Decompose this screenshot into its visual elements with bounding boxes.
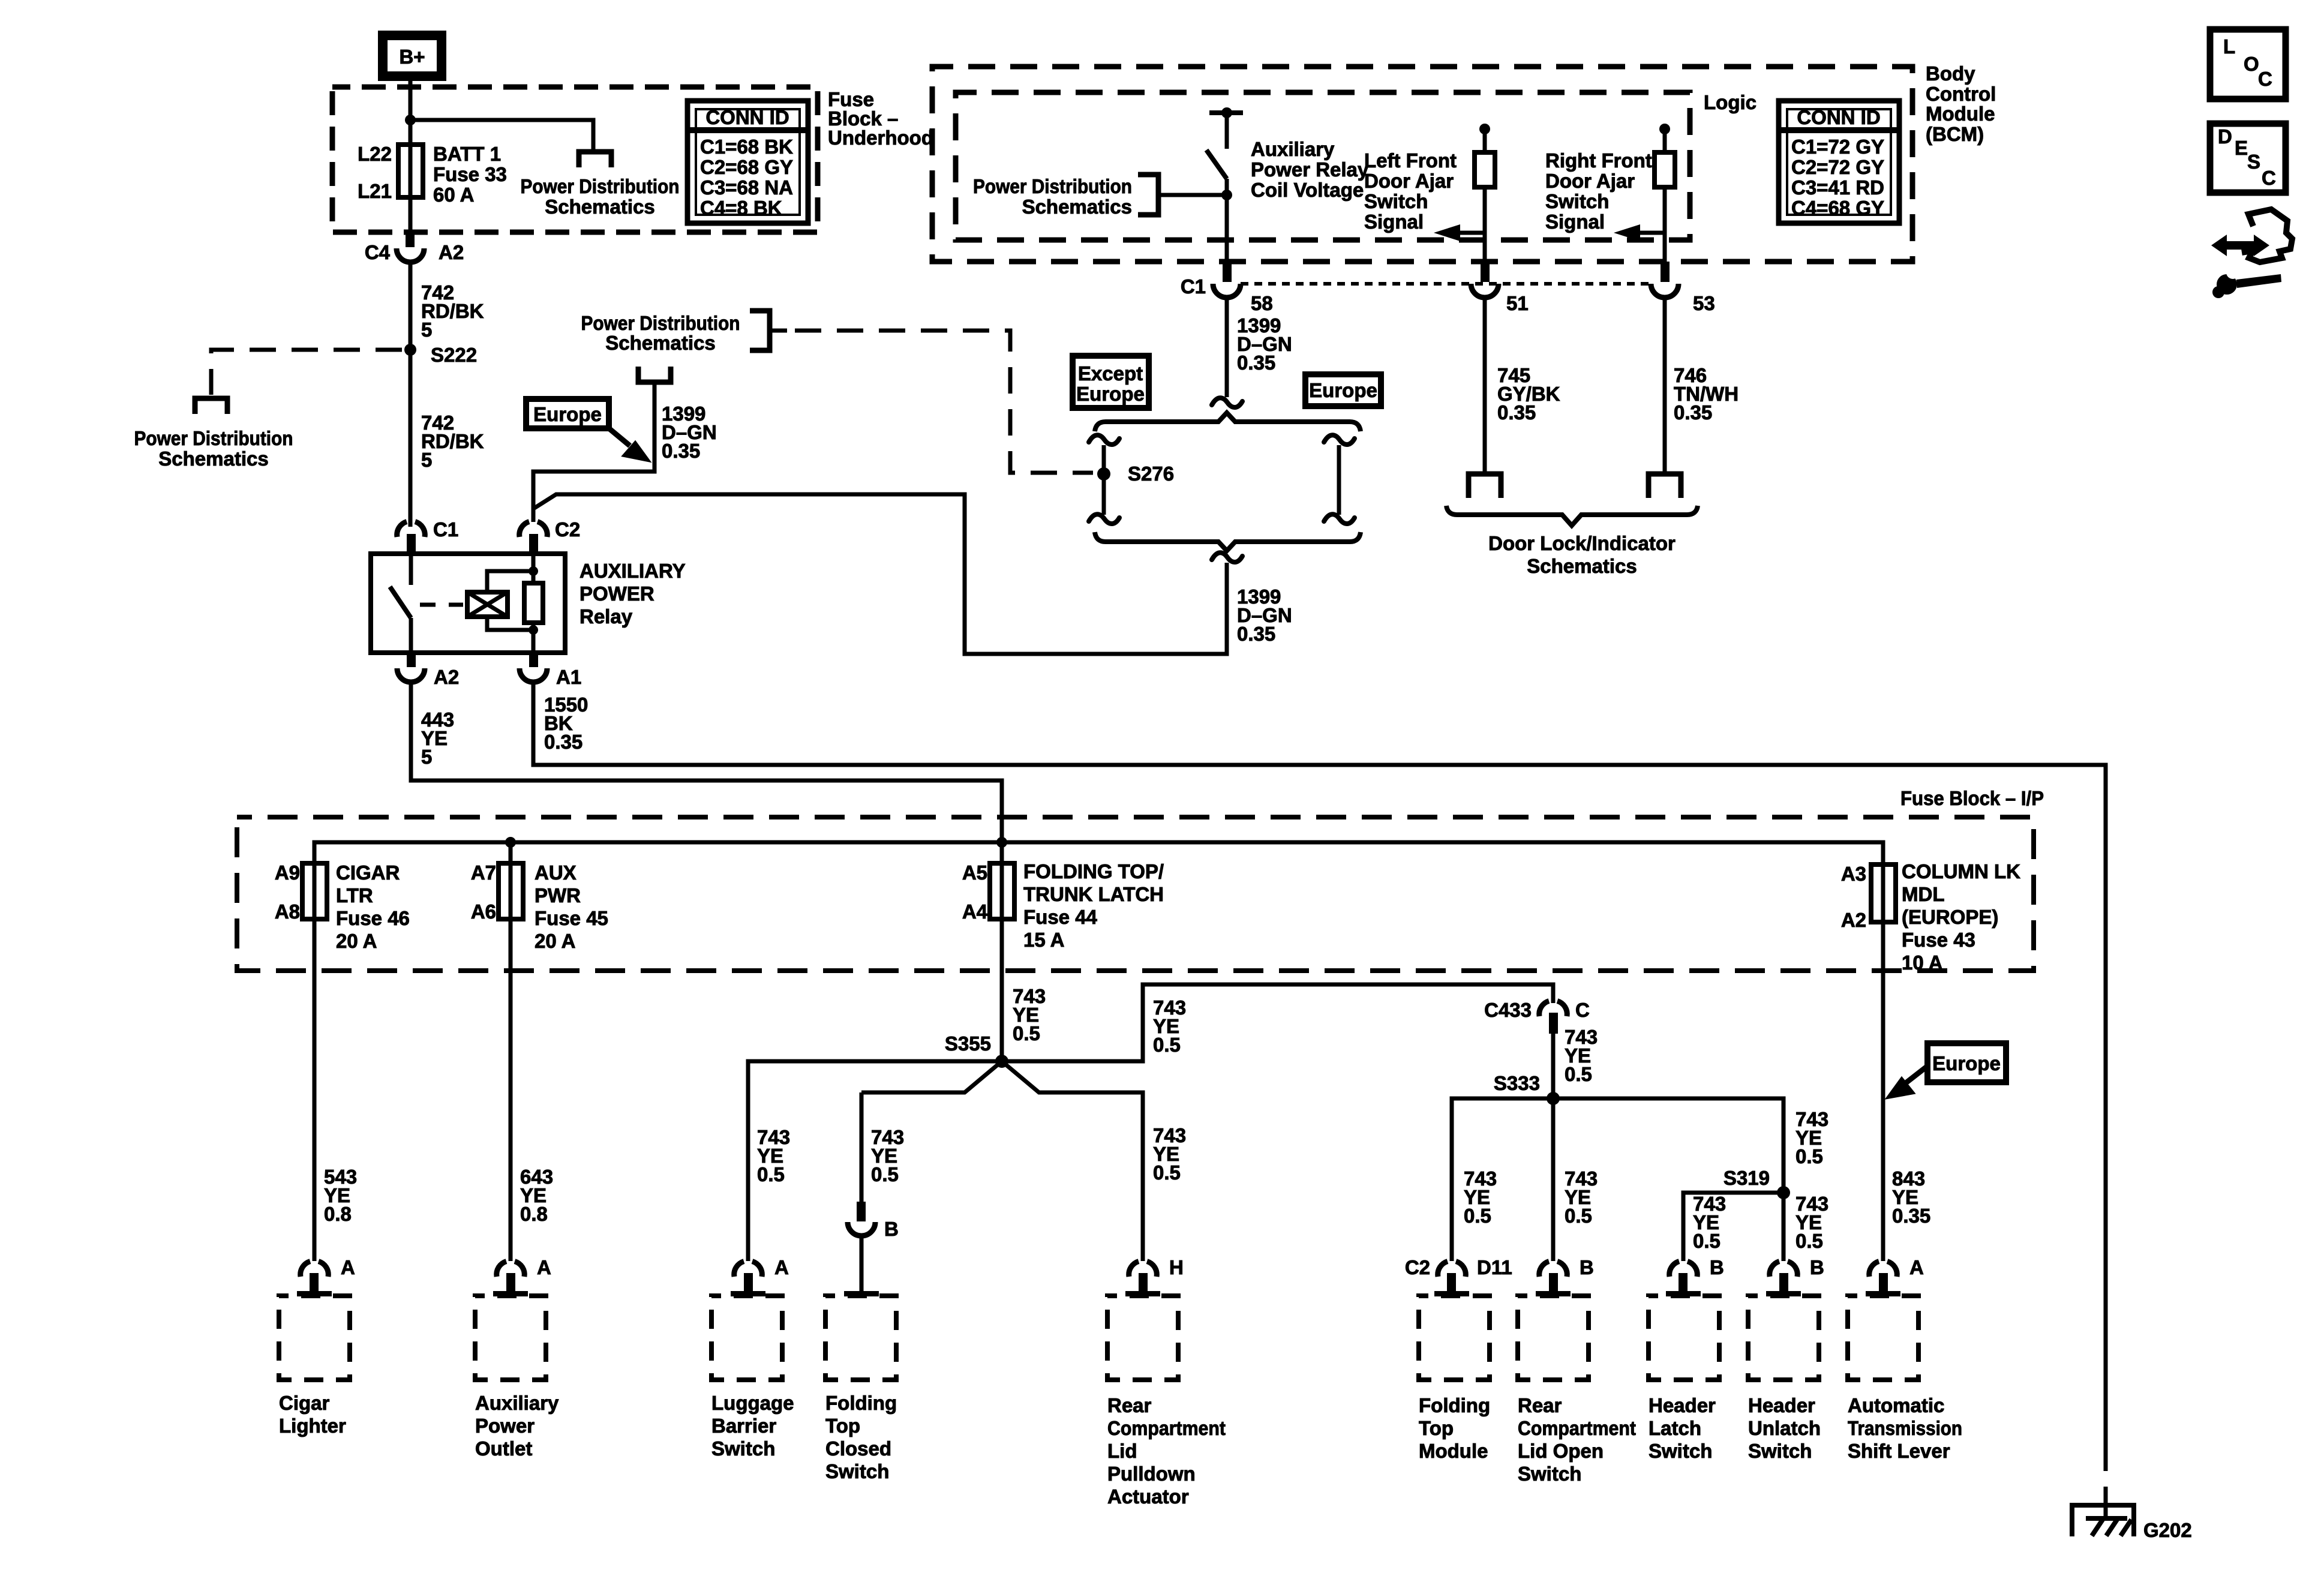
node: bus at aux pwr <box>505 837 516 848</box>
svg-text:Switch: Switch <box>711 1437 775 1460</box>
node relay bottom <box>529 625 538 635</box>
svg-text:Switch: Switch <box>1545 190 1609 212</box>
label: circuit 643 YE 0.8 <box>520 1166 553 1225</box>
svg-text:Top: Top <box>1419 1417 1454 1439</box>
wire 1399 D-GN from power distribution <box>533 385 654 522</box>
brace: door lock/indicator schematics <box>1446 506 1698 526</box>
label: circuit 742 RD/BK 5 (upper) <box>421 281 484 341</box>
svg-text:Switch: Switch <box>1518 1463 1581 1485</box>
svg-text:A2: A2 <box>434 666 459 688</box>
fuse BATT 1 Fuse 33 60 A <box>409 145 413 232</box>
label: circuit 743 YE 0.5 (header latch) <box>1693 1193 1726 1252</box>
svg-text:C1: C1 <box>433 518 458 541</box>
svg-text:A2: A2 <box>1841 909 1866 931</box>
node relay top <box>529 566 538 576</box>
Europe flag (merge) <box>1305 374 1381 406</box>
svg-text:Switch: Switch <box>1649 1440 1712 1462</box>
wire S319 to header latch switch <box>1683 1193 1783 1261</box>
svg-text:Header: Header <box>1748 1394 1815 1416</box>
label: circuit 1399 D-GN 0.35 (to relay) <box>1237 586 1292 645</box>
svg-text:C1: C1 <box>1181 275 1206 298</box>
svg-text:Power Distribution: Power Distribution <box>521 175 680 197</box>
label: circuit 843 YE 0.35 <box>1892 1167 1930 1227</box>
svg-text:Relay: Relay <box>580 605 633 628</box>
svg-text:10 A: 10 A <box>1902 951 1942 974</box>
svg-text:Auxiliary: Auxiliary <box>1251 138 1335 160</box>
svg-text:C3=68 NA: C3=68 NA <box>700 176 793 199</box>
svg-text:Cigar: Cigar <box>279 1392 330 1414</box>
terminal (door lock) left <box>1469 474 1501 498</box>
svg-text:60 A: 60 A <box>433 184 474 206</box>
label: circuit 743 YE 0.5 (ftm) <box>1464 1167 1497 1227</box>
label: Power Distribution Schematics (left) <box>134 427 293 470</box>
svg-text:C4=8 BK: C4=8 BK <box>700 197 782 219</box>
svg-text:S: S <box>2247 151 2260 173</box>
wire 843 YE <box>1881 922 1885 1261</box>
splice S222 <box>404 344 416 356</box>
wire S333 to folding top module <box>1452 1098 1553 1261</box>
label: Automatic Transmission Shift Lever <box>1848 1394 1962 1462</box>
label: circuit 743 YE 0.5 (to C433) <box>1153 996 1186 1056</box>
svg-text:S355: S355 <box>945 1032 991 1055</box>
relay coil loop wires <box>487 571 533 592</box>
Body Control Module dashed box <box>932 67 1912 262</box>
wire S355 to folding top closed switch <box>861 1061 1002 1092</box>
svg-text:0.5: 0.5 <box>1693 1230 1721 1252</box>
svg-text:Switch: Switch <box>825 1460 889 1482</box>
label: circuit 743 YE 0.5 (lid open) <box>1565 1167 1598 1227</box>
label: circuit 743 YE 0.5 (folding closed) <box>871 1126 904 1185</box>
svg-text:CIGAR: CIGAR <box>336 861 400 884</box>
svg-text:20 A: 20 A <box>535 930 575 952</box>
label: AUX PWR Fuse 45 20 A <box>535 861 608 952</box>
svg-text:LTR: LTR <box>336 884 373 906</box>
svg-text:Fuse 46: Fuse 46 <box>336 907 410 929</box>
connector pin 51 (BCM) <box>1471 262 1529 314</box>
Cigar Lighter box <box>279 1296 350 1380</box>
relay coil (valve symbol) <box>467 592 508 617</box>
break squiggle below bottom brace <box>1212 553 1242 562</box>
svg-text:0.8: 0.8 <box>520 1203 548 1225</box>
svg-text:0.5: 0.5 <box>1153 1161 1181 1184</box>
svg-text:C2: C2 <box>555 518 580 541</box>
svg-text:Folding: Folding <box>1419 1394 1490 1416</box>
svg-text:Lid Open: Lid Open <box>1518 1440 1604 1462</box>
label: Power Distribution Schematics (underhood) <box>521 175 680 218</box>
wire S355 to luggage barrier switch <box>748 1061 1002 1261</box>
fuse CIGAR LTR Fuse 46 <box>313 842 317 919</box>
svg-text:Signal: Signal <box>1545 211 1605 233</box>
svg-text:0.5: 0.5 <box>1153 1034 1181 1056</box>
BCM connector row dotted line <box>1241 282 1651 286</box>
svg-text:0.5: 0.5 <box>1795 1145 1823 1167</box>
svg-text:Rear: Rear <box>1518 1394 1562 1416</box>
svg-text:E: E <box>2235 137 2248 159</box>
svg-text:Switch: Switch <box>1364 190 1428 212</box>
svg-text:Door Ajar: Door Ajar <box>1364 170 1454 192</box>
wire S333 to S319 <box>1553 1098 1783 1193</box>
svg-text:Actuator: Actuator <box>1107 1485 1189 1508</box>
svg-text:(BCM): (BCM) <box>1926 123 1984 145</box>
wire to ground (break) <box>2104 1487 2108 1517</box>
svg-text:0.5: 0.5 <box>871 1163 899 1185</box>
svg-text:Schematics: Schematics <box>605 332 715 354</box>
label: circuit 743 YE 0.5 (actuator) <box>1153 1124 1186 1184</box>
Header Unlatch Switch box <box>1748 1296 1819 1380</box>
label: Body Control Module (BCM) <box>1926 62 1996 145</box>
svg-text:L21: L21 <box>358 180 392 202</box>
label: Header Unlatch Switch <box>1748 1394 1821 1462</box>
off-page staple (left power distribution) <box>195 398 227 414</box>
svg-text:Transmission: Transmission <box>1848 1417 1962 1439</box>
connector C2 (relay) <box>520 518 580 554</box>
svg-text:C: C <box>2258 68 2272 90</box>
svg-text:Module: Module <box>1926 103 1995 125</box>
label: Auxiliary Power Outlet <box>475 1392 559 1460</box>
svg-text:53: 53 <box>1693 292 1715 314</box>
svg-text:B: B <box>1810 1256 1824 1278</box>
B+ power symbol <box>378 31 446 81</box>
label: circuit 745 GY/BK 0.35 <box>1497 364 1560 424</box>
svg-text:Pulldown: Pulldown <box>1107 1463 1196 1485</box>
Luggage Barrier Switch box <box>711 1296 782 1380</box>
wire S319 to header unlatch switch <box>1782 1193 1786 1261</box>
wire S333 to rear compartment lid open switch <box>1551 1098 1556 1261</box>
connector H (pulldown actuator) <box>1125 1256 1184 1296</box>
svg-text:Latch: Latch <box>1649 1417 1701 1439</box>
svg-text:A: A <box>1909 1256 1924 1278</box>
label: FOLDING TOP/TRUNK LATCH Fuse 44 15 A <box>1023 860 1164 951</box>
svg-text:B+: B+ <box>399 46 425 68</box>
svg-text:A6: A6 <box>471 900 496 923</box>
connector B (folding top closed switch) <box>844 1202 899 1296</box>
svg-text:Fuse 43: Fuse 43 <box>1902 929 1975 951</box>
svg-text:G202: G202 <box>2143 1519 2192 1541</box>
svg-text:Left Front: Left Front <box>1364 149 1457 172</box>
svg-text:C433: C433 <box>1484 999 1532 1021</box>
svg-text:A9: A9 <box>275 861 300 884</box>
svg-text:AUXILIARY: AUXILIARY <box>580 560 686 582</box>
svg-text:Underhood: Underhood <box>828 127 933 149</box>
connector C4/A2 <box>365 232 464 263</box>
label: circuit 743 YE 0.5 (fuse drop) <box>1013 985 1046 1044</box>
dashed wire to splice S276 <box>795 331 1093 473</box>
svg-text:B: B <box>884 1218 899 1240</box>
svg-text:5: 5 <box>421 746 432 768</box>
Europe flag (near relay) <box>526 399 609 428</box>
svg-text:PWR: PWR <box>535 884 581 906</box>
svg-text:Switch: Switch <box>1748 1440 1812 1462</box>
svg-text:Shift Lever: Shift Lever <box>1848 1440 1950 1462</box>
relay AUXILIARY POWER Relay box <box>371 554 565 653</box>
Fuse Block - Underhood dashed box <box>332 87 818 232</box>
Except Europe flag <box>1073 356 1149 408</box>
svg-text:S319: S319 <box>1724 1167 1770 1189</box>
Fuse Block - I/P dashed box <box>237 817 2034 971</box>
label: circuit 443 YE 5 <box>421 709 454 768</box>
label: Folding Top Closed Switch <box>825 1392 897 1482</box>
relay switch <box>390 554 411 653</box>
left door ajar signal arrow <box>1434 224 1485 241</box>
svg-text:Fuse Block – I/P: Fuse Block – I/P <box>1900 787 2044 809</box>
svg-text:0.5: 0.5 <box>1565 1063 1592 1085</box>
svg-text:Fuse 44: Fuse 44 <box>1023 906 1098 928</box>
svg-text:0.5: 0.5 <box>1795 1230 1823 1252</box>
svg-text:58: 58 <box>1251 292 1273 314</box>
label: BATT 1 Fuse 33 60 A <box>433 143 507 206</box>
svg-text:O: O <box>2244 53 2259 75</box>
svg-text:0.35: 0.35 <box>1892 1205 1930 1227</box>
svg-text:A7: A7 <box>471 861 496 884</box>
svg-text:0.35: 0.35 <box>1497 401 1536 424</box>
LOC icon <box>2210 29 2286 99</box>
svg-text:A4: A4 <box>962 900 988 923</box>
node: B+ branch junction <box>405 115 416 125</box>
svg-text:A8: A8 <box>275 900 300 923</box>
repair icon (arrow, panel, wrench) <box>2211 209 2292 298</box>
label: circuit 742 RD/BK 5 (lower) <box>421 412 484 471</box>
svg-text:Compartment: Compartment <box>1518 1417 1636 1439</box>
svg-text:Europe: Europe <box>1309 379 1377 401</box>
svg-text:0.35: 0.35 <box>1237 352 1275 374</box>
Europe arrow (near relay) <box>609 428 650 461</box>
svg-text:Top: Top <box>825 1415 860 1437</box>
svg-text:POWER: POWER <box>580 583 654 605</box>
svg-text:S333: S333 <box>1494 1072 1540 1094</box>
wire 743 YE below fuse 44 <box>1000 919 1004 1061</box>
svg-text:C2=68 GY: C2=68 GY <box>700 156 793 178</box>
svg-text:C: C <box>1575 999 1590 1021</box>
svg-text:A: A <box>341 1256 355 1278</box>
wire 643 YE <box>509 919 513 1261</box>
svg-text:B: B <box>1580 1256 1594 1278</box>
svg-text:0.5: 0.5 <box>1013 1022 1040 1044</box>
long wire from C2 branch to S276 bottom leg <box>533 494 1227 654</box>
svg-text:Signal: Signal <box>1364 211 1424 233</box>
svg-text:Luggage: Luggage <box>711 1392 794 1414</box>
svg-text:0.5: 0.5 <box>1565 1205 1592 1227</box>
Folding Top Module box <box>1419 1296 1490 1380</box>
Europe flag (column lock) <box>1927 1043 2006 1082</box>
svg-text:0.35: 0.35 <box>1674 401 1712 424</box>
label: circuit 743 YE 0.5 (C433-S333) <box>1565 1026 1598 1085</box>
wire 742 RD/BK lower <box>409 350 413 527</box>
svg-text:(EUROPE): (EUROPE) <box>1902 906 1998 928</box>
break squiggle below 1399 <box>1212 398 1242 407</box>
svg-text:B: B <box>1710 1256 1724 1278</box>
svg-text:S222: S222 <box>431 344 477 366</box>
label: Rear Compartment Lid Pulldown Actuator <box>1107 1394 1226 1508</box>
svg-text:Rear: Rear <box>1107 1394 1152 1416</box>
svg-text:0.35: 0.35 <box>662 440 700 462</box>
wire B+ to fuse block <box>409 81 413 145</box>
fuse AUX PWR Fuse 45 <box>509 842 513 919</box>
label: circuit 1399 D-GN 0.35 (BCM) <box>1237 314 1292 374</box>
wire 746 TN/WH <box>1663 298 1667 472</box>
svg-text:C1=68 BK: C1=68 BK <box>700 136 793 158</box>
off-page staple: power distribution schematics <box>579 152 611 167</box>
svg-text:S276: S276 <box>1128 463 1174 485</box>
svg-text:Door Lock/Indicator: Door Lock/Indicator <box>1488 532 1676 554</box>
svg-text:Control: Control <box>1926 83 1996 105</box>
right merge branch with squiggles <box>1324 435 1355 524</box>
label: Folding Top Module <box>1419 1394 1490 1462</box>
relay linkage dashed <box>420 603 463 607</box>
node: bus at folding top <box>996 837 1007 848</box>
wire S355 to pulldown actuator <box>1002 1061 1143 1261</box>
svg-text:TRUNK LATCH: TRUNK LATCH <box>1023 883 1164 905</box>
svg-text:A: A <box>774 1256 789 1278</box>
svg-text:C2=72 GY: C2=72 GY <box>1791 156 1884 178</box>
label: COLUMN LK MDL (EUROPE) Fuse 43 10 A <box>1902 860 2020 974</box>
splice S276 <box>1097 467 1110 481</box>
Europe arrow (column lock) <box>1887 1066 1927 1098</box>
svg-text:15 A: 15 A <box>1023 929 1064 951</box>
svg-text:C4=68 GY: C4=68 GY <box>1791 197 1884 219</box>
label: Right Front Door Ajar Switch Signal <box>1545 149 1652 233</box>
svg-text:Compartment: Compartment <box>1107 1417 1226 1439</box>
svg-text:H: H <box>1169 1256 1184 1278</box>
Automatic Transmission Shift Lever box <box>1848 1296 1918 1380</box>
svg-text:Fuse 33: Fuse 33 <box>433 163 507 185</box>
fuse block bus <box>314 842 1883 863</box>
label: Luggage Barrier Switch <box>711 1392 794 1460</box>
svg-text:C3=41 RD: C3=41 RD <box>1791 176 1884 199</box>
Auxiliary Power Outlet box <box>475 1296 546 1380</box>
svg-text:Header: Header <box>1649 1394 1716 1416</box>
Rear Compartment Lid Open Switch box <box>1518 1296 1589 1380</box>
wire S355 to C433 <box>1002 984 1553 1061</box>
svg-text:FOLDING TOP/: FOLDING TOP/ <box>1023 860 1164 882</box>
wire 1550 BK to ground <box>533 681 2106 1471</box>
svg-text:Power Distribution: Power Distribution <box>134 427 293 449</box>
wire 543 YE <box>313 919 317 1261</box>
label: Header Latch Switch <box>1649 1394 1716 1462</box>
svg-text:Europe: Europe <box>1932 1052 2001 1074</box>
svg-text:Power Distribution: Power Distribution <box>973 175 1132 197</box>
bracket to dashed S276 line <box>750 311 770 350</box>
BCM left front door ajar input resistor <box>1475 124 1495 262</box>
svg-text:Outlet: Outlet <box>475 1437 532 1460</box>
svg-text:Schematics: Schematics <box>1527 555 1637 577</box>
connector A (cigar lighter) <box>297 1256 355 1296</box>
dashed wire to power distribution schematics (left) <box>211 350 402 395</box>
label: circuit 543 YE 0.8 <box>324 1166 357 1225</box>
Folding Top Closed Switch box <box>825 1296 896 1380</box>
svg-text:Closed: Closed <box>825 1437 891 1460</box>
svg-text:Fuse 45: Fuse 45 <box>535 907 608 929</box>
label: circuit 1399 D-GN 0.35 (feed) <box>662 403 717 462</box>
svg-text:Lid: Lid <box>1107 1440 1137 1462</box>
right door ajar signal arrow <box>1614 224 1665 241</box>
svg-text:Schematics: Schematics <box>1022 196 1132 218</box>
connector A2 (relay out) <box>397 653 459 688</box>
connector A (shift lever) <box>1866 1256 1924 1296</box>
fuse FOLDING TOP/TRUNK LATCH Fuse 44 <box>1000 842 1004 919</box>
svg-text:Automatic: Automatic <box>1848 1394 1944 1416</box>
label: circuit 743 YE 0.5 (to S319) <box>1795 1108 1828 1167</box>
svg-text:Coil Voltage: Coil Voltage <box>1251 179 1364 201</box>
connector C2/D11 (folding top module) <box>1405 1256 1512 1296</box>
top merge brace <box>1095 413 1361 431</box>
svg-text:Lighter: Lighter <box>279 1415 346 1437</box>
left merge branch with squiggles <box>1089 435 1119 524</box>
svg-text:Europe: Europe <box>1076 383 1145 405</box>
wire 742 RD/BK upper <box>409 261 413 350</box>
svg-text:Barrier: Barrier <box>711 1415 776 1437</box>
BCM relay driver switch <box>1206 107 1243 262</box>
CONN ID table (BCM) <box>1779 101 1899 223</box>
svg-text:A: A <box>537 1256 551 1278</box>
svg-text:Schematics: Schematics <box>545 196 654 218</box>
connector B (header latch switch) <box>1666 1256 1724 1296</box>
bracket: power distribution schematics (BCM) <box>973 175 1132 218</box>
label: circuit 1550 BK 0.35 <box>544 694 588 753</box>
connector B (lid open switch) <box>1536 1256 1594 1296</box>
svg-text:D11: D11 <box>1477 1256 1512 1278</box>
label: circuit 743 YE 0.5 (header unlatch) <box>1795 1193 1828 1252</box>
off-page staple: power distribution schematics (middle) <box>581 312 740 354</box>
fuse COLUMN LK MDL Fuse 43 <box>1881 842 1885 922</box>
svg-text:D: D <box>2218 125 2232 148</box>
svg-text:5: 5 <box>421 319 432 341</box>
svg-text:51: 51 <box>1506 292 1529 314</box>
svg-text:Power Distribution: Power Distribution <box>581 312 740 334</box>
Rear Compartment Lid Pulldown Actuator box <box>1107 1296 1178 1380</box>
ground G202 <box>2070 1503 2192 1541</box>
svg-text:Power: Power <box>475 1415 535 1437</box>
svg-text:Auxiliary: Auxiliary <box>475 1392 559 1414</box>
connector B (header unlatch switch) <box>1766 1256 1824 1296</box>
svg-text:0.8: 0.8 <box>324 1203 352 1225</box>
connector A1 (relay gnd) <box>520 653 581 688</box>
svg-text:COLUMN LK: COLUMN LK <box>1902 860 2020 882</box>
svg-text:A1: A1 <box>556 666 581 688</box>
svg-text:A2: A2 <box>439 241 464 263</box>
svg-text:AUX: AUX <box>535 861 577 884</box>
svg-text:Door Ajar: Door Ajar <box>1545 170 1635 192</box>
svg-text:MDL: MDL <box>1902 883 1944 905</box>
label: Fuse Block - Underhood <box>828 88 933 149</box>
BCM right front door ajar input resistor <box>1655 124 1675 262</box>
label: Left Front Door Ajar Switch Signal <box>1364 149 1457 233</box>
CONN ID table (underhood) <box>687 101 808 223</box>
wire 1399 from BCM C1-58 <box>1225 298 1229 397</box>
svg-text:L22: L22 <box>358 143 392 165</box>
bottom merge brace <box>1095 532 1361 551</box>
svg-text:20 A: 20 A <box>336 930 377 952</box>
svg-text:Logic: Logic <box>1704 91 1756 113</box>
connector pin 53 (BCM) <box>1651 262 1715 314</box>
svg-text:Right Front: Right Front <box>1545 149 1652 172</box>
label: circuit 746 TN/WH 0.35 <box>1674 364 1739 424</box>
terminal (door lock) right <box>1649 474 1681 498</box>
svg-text:L: L <box>2223 35 2235 58</box>
svg-text:CONN ID: CONN ID <box>705 106 789 128</box>
connector C1 (relay) <box>397 518 458 554</box>
svg-text:5: 5 <box>421 449 432 471</box>
label: Cigar Lighter <box>279 1392 346 1437</box>
svg-text:A3: A3 <box>1841 863 1866 885</box>
label: Door Lock/Indicator Schematics <box>1488 532 1676 577</box>
svg-text:Europe: Europe <box>533 403 602 425</box>
svg-text:CONN ID: CONN ID <box>1797 106 1880 128</box>
svg-text:0.5: 0.5 <box>1464 1205 1491 1227</box>
svg-text:C4: C4 <box>365 241 391 263</box>
svg-text:0.35: 0.35 <box>544 731 582 753</box>
label: CIGAR LTR Fuse 46 20 A <box>336 861 410 952</box>
svg-text:BATT 1: BATT 1 <box>433 143 501 165</box>
